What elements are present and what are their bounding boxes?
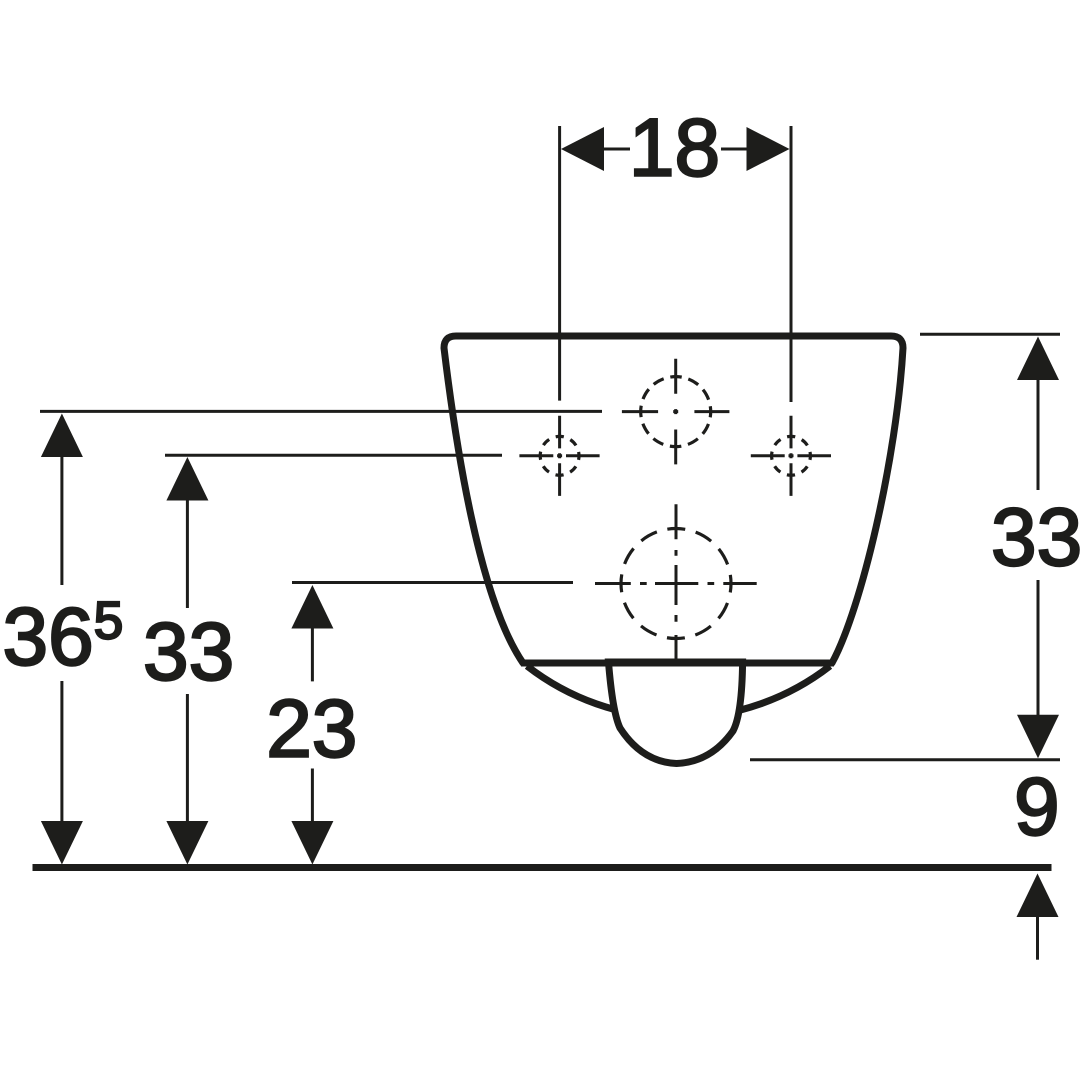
- svg-text:33: 33: [991, 492, 1080, 583]
- right fixing hole crosshair: [790, 416, 793, 496]
- arrowhead 18 left: [561, 127, 604, 171]
- leader line 36.5 (inlet level): [40, 410, 602, 413]
- dim line 33 right: [1037, 379, 1040, 716]
- svg-text:365: 365: [3, 592, 124, 683]
- drain crosshair vertical: [675, 504, 678, 666]
- arrowhead 33 right up: [1017, 337, 1059, 381]
- arrowhead 23 down: [291, 821, 333, 865]
- water inlet circle (top, dashed): [641, 377, 711, 447]
- svg-text:18: 18: [629, 102, 720, 193]
- dim line 36.5: [60, 456, 63, 823]
- leader line 23 (drain level): [292, 581, 573, 584]
- leader line 33 left (fixing holes level): [165, 454, 502, 457]
- floor line: [33, 864, 1052, 871]
- dim 18: right extension line: [790, 126, 793, 402]
- body bottom line: [521, 660, 834, 667]
- dim line 9 (below floor): [1036, 916, 1039, 960]
- arrowhead 18 right: [747, 127, 790, 171]
- svg-text:33: 33: [143, 606, 234, 697]
- toilet body outline: [444, 336, 903, 663]
- left fixing hole crosshair: [558, 416, 561, 496]
- leader line bottom right (outlet bottom level): [750, 758, 1060, 761]
- inlet crosshair vertical: [674, 359, 677, 465]
- left fixing hole circle (dashed): [540, 436, 579, 475]
- dim line 33 left: [186, 499, 189, 823]
- arrowhead 9 up (below floor): [1017, 874, 1059, 918]
- arrowhead 33 left down: [166, 821, 208, 865]
- dim line 23: [311, 627, 314, 823]
- arrowhead 33 right down: [1017, 715, 1059, 759]
- right fixing hole circle (dashed): [772, 436, 811, 475]
- dim 18: left extension line: [558, 126, 561, 401]
- drain crosshair horizontal: [595, 582, 757, 585]
- svg-text:23: 23: [266, 683, 357, 774]
- svg-text:9: 9: [1014, 762, 1060, 853]
- arrowhead 36.5 down: [41, 821, 83, 865]
- drain outlet circle (bottom, dashed): [621, 529, 731, 639]
- arrowhead 23 up: [291, 585, 333, 629]
- dim 18: dimension line stubs: [603, 148, 747, 151]
- bowl outer arc: [527, 666, 830, 718]
- inlet crosshair horizontal: [622, 410, 730, 413]
- arrowhead 33 left up: [166, 457, 208, 501]
- leader line top right (rim level): [920, 333, 1060, 336]
- trapway outlet U: [609, 662, 743, 764]
- arrowhead 36.5 up: [41, 414, 83, 458]
